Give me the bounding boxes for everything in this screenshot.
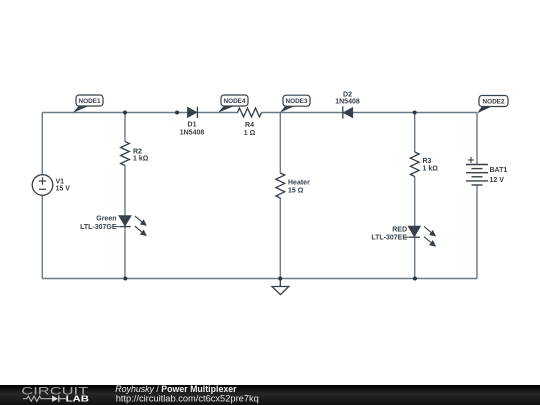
resistor R4 1 Ohm bbox=[238, 108, 262, 137]
wire left vertical bbox=[41, 113, 43, 279]
resistor R2 1 kOhm bbox=[121, 142, 149, 166]
junction dot top R2 branch bbox=[123, 111, 127, 115]
wire heater branch bbox=[279, 113, 281, 279]
junction dot bottom green branch bbox=[123, 277, 127, 281]
junction dot bottom ground bbox=[278, 277, 282, 281]
ground bbox=[272, 279, 289, 295]
wire battery branch bbox=[476, 113, 478, 279]
junction dot before D1 bbox=[175, 111, 179, 115]
battery BAT1 12 V bbox=[466, 165, 488, 186]
wire R2/green-LED branch bbox=[124, 113, 126, 279]
wire top horizontal bbox=[42, 112, 477, 114]
LED Green LTL-307GE bbox=[80, 216, 146, 236]
voltage source V1 15 V bbox=[32, 175, 70, 196]
footer title text bbox=[115, 384, 259, 404]
resistor Heater 15 Ohm bbox=[276, 173, 310, 198]
diode D1 1N5408 bbox=[180, 107, 205, 137]
wire bottom horizontal bbox=[42, 278, 477, 280]
footer bar bbox=[0, 385, 540, 405]
svg-text:Royhusky / Power Multiplexer: Royhusky / Power Multiplexer bbox=[115, 384, 237, 394]
node NODE4 bbox=[218, 95, 248, 113]
node NODE1 bbox=[73, 95, 103, 113]
svg-text:http://circuitlab.com/ct6cx52p: http://circuitlab.com/ct6cx52pre7kq bbox=[116, 394, 259, 404]
junction dot bottom red branch bbox=[413, 277, 417, 281]
node NODE2 bbox=[477, 96, 508, 114]
wire R3/red-LED branch bbox=[414, 113, 416, 279]
junction dot top R3 branch bbox=[413, 111, 417, 115]
svg-text:LAB: LAB bbox=[66, 393, 89, 403]
resistor R3 1 kOhm bbox=[410, 152, 438, 177]
diode D2 1N5408 bbox=[335, 91, 360, 118]
LED RED LTL-307EE bbox=[371, 226, 435, 246]
node NODE3 bbox=[280, 95, 310, 113]
